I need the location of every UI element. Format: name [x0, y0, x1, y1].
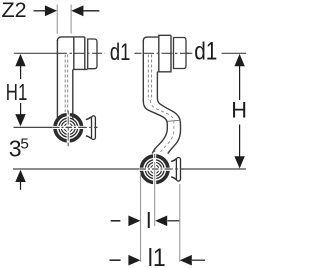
left outlet side tab: [86, 117, 94, 139]
right pipe joint line: [168, 120, 181, 121]
left pipe walls: [57, 40, 72, 119]
svg-text:d1: d1: [194, 38, 217, 66]
35 bottom arrow: [15, 170, 25, 182]
right tab top wing: [171, 159, 176, 162]
right s-bend pipe walls: [143, 40, 180, 154]
H bottom arrow: [234, 156, 244, 168]
35 arrow tail: [20, 182, 22, 190]
right flange rings: [140, 155, 169, 184]
l extension line left: [140, 172, 142, 262]
H dimension line: [239, 63, 241, 158]
l dimension left tail dash: [111, 220, 121, 222]
left fitting knurled end: [88, 39, 97, 69]
svg-text:H: H: [231, 98, 247, 123]
l right tail: [168, 220, 180, 222]
left tab centerline dash: [84, 126, 97, 128]
svg-text:d1: d1: [110, 39, 130, 66]
left outlet vertical centerline: [67, 111, 69, 147]
left tab rim: [92, 116, 96, 140]
H1 top arrow: [15, 54, 25, 66]
l1 extension line right: [179, 184, 181, 262]
svg-text:l1: l1: [148, 244, 166, 268]
l1 dimension left tail dash: [110, 259, 121, 261]
right circle crosshair lines: [140, 168, 185, 170]
right bend dashed centerline: [150, 100, 174, 153]
l left arrow: [128, 216, 140, 227]
svg-text:5: 5: [20, 135, 28, 152]
left fitting body outline: [57, 37, 87, 70]
right fitting body outline: [143, 35, 171, 72]
left circle crosshair lines: [53, 126, 98, 128]
H top arrow: [234, 54, 244, 66]
left tab bottom wing: [86, 136, 91, 139]
right pipe interior fill over rings: [153, 144, 167, 154]
Z2 left dimension line: [34, 10, 47, 12]
svg-text:l: l: [146, 208, 151, 233]
l1 right tail: [192, 259, 205, 261]
right tab bottom wing: [171, 177, 176, 180]
right pipe hidden bore dashes: [148, 55, 151, 101]
left pipe hidden bore dashes: [65, 55, 68, 113]
right outlet vertical centerline top: [154, 148, 156, 160]
centerline left outlet (y=127.4): [14, 126, 54, 128]
l1 left arrow: [128, 255, 140, 266]
centerline right outlet (y=169): [13, 168, 140, 170]
svg-text:Z2: Z2: [2, 0, 27, 22]
Z2 extension line left: [56, 5, 58, 34]
l right arrow: [155, 216, 167, 227]
left tab top wing: [86, 117, 91, 120]
Z2 right dimension line: [82, 10, 99, 12]
Z2 right arrow: [71, 5, 83, 16]
H1 bottom arrow: [15, 114, 25, 126]
Z2 left arrow: [45, 5, 57, 16]
left pipe interior mask over rings: [58, 100, 72, 113]
right tab rim: [176, 158, 180, 182]
right tab centerline dash: [170, 168, 182, 170]
H1 dimension line: [20, 63, 22, 117]
l1 right arrow: [180, 255, 192, 266]
right outlet side tab: [171, 159, 179, 180]
Z2 extension line right: [70, 5, 72, 34]
svg-text:H1: H1: [6, 79, 28, 105]
centerline axis d1 (y=53.3): [14, 52, 246, 54]
l extension line center: [154, 162, 156, 226]
right circle crosshair white channels: [139, 168, 170, 171]
left circle crosshair white channels: [53, 126, 84, 129]
right fitting knurled end: [174, 38, 187, 69]
left flange rings: [54, 113, 83, 142]
